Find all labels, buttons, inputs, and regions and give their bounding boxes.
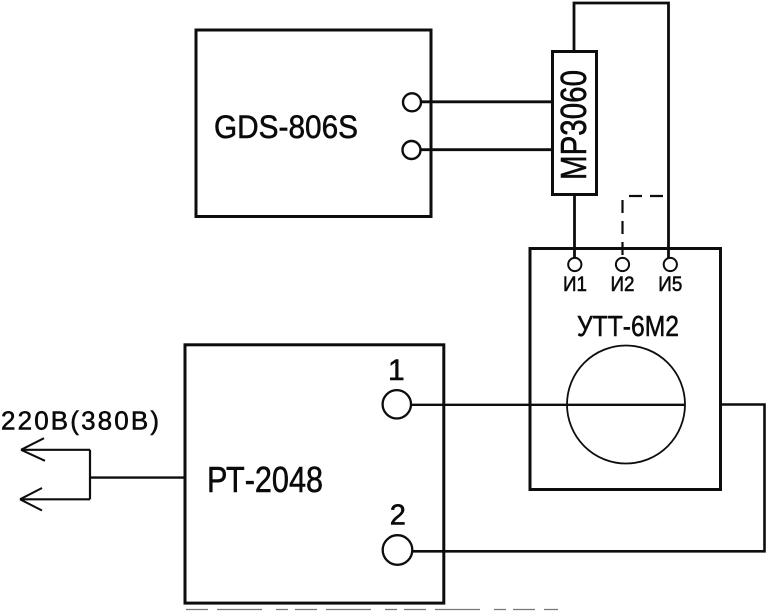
svg-text:И2: И2 [611,273,635,296]
svg-text:И5: И5 [658,273,682,296]
svg-text:1: 1 [388,354,405,387]
svg-text:РТ-2048: РТ-2048 [207,459,323,500]
svg-text:УТТ-6М2: УТТ-6М2 [577,311,679,343]
svg-text:МР3060: МР3060 [553,70,594,180]
svg-text:GDS-806S: GDS-806S [214,109,358,145]
svg-text:2: 2 [390,500,406,532]
svg-text:И1: И1 [563,273,587,296]
